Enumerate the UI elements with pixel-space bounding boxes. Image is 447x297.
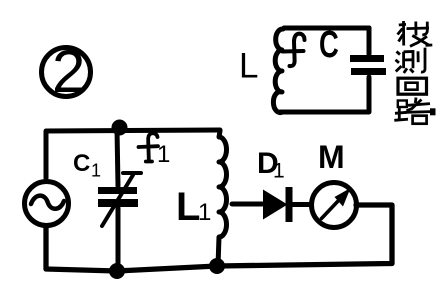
svg-text:1: 1 (198, 199, 211, 226)
svg-text:M: M (318, 139, 345, 175)
svg-text:L: L (176, 185, 200, 229)
svg-text:1: 1 (273, 160, 285, 183)
svg-text:C: C (73, 150, 90, 177)
svg-text:L: L (239, 47, 258, 86)
svg-text:1: 1 (91, 161, 101, 181)
svg-text:2: 2 (52, 38, 85, 105)
svg-text:1: 1 (157, 141, 170, 168)
svg-text:C: C (319, 24, 339, 66)
